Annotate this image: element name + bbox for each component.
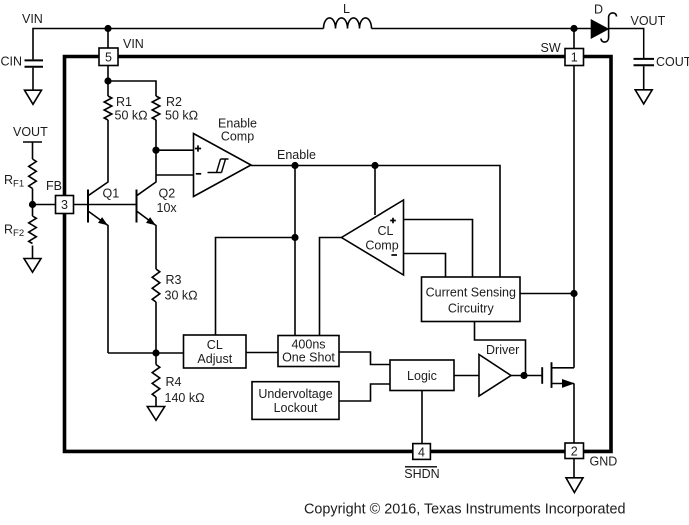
svg-text:Lockout: Lockout [274, 401, 318, 415]
svg-text:GND: GND [590, 455, 618, 469]
wire pin2 to ground [573, 459, 575, 478]
node junction SW sense [570, 290, 577, 297]
svg-text:Enable: Enable [277, 148, 316, 162]
feedback divider: VOUT tee bar [23, 141, 42, 143]
wire R3 to R4 [155, 302, 157, 365]
wire CL Adjust to One Shot [246, 352, 278, 354]
transistor M1 channel bar [551, 362, 553, 388]
IC boundary thick border left side lower, bottom-left corner [65, 214, 413, 452]
wire branch to CL Adjust top [216, 238, 296, 336]
wire Logic to Driver [454, 375, 479, 377]
svg-text:R3: R3 [166, 273, 182, 287]
svg-text:Enable: Enable [218, 117, 257, 131]
svg-text:Q1: Q1 [103, 187, 120, 201]
wire VIN pin stub [107, 29, 109, 48]
IC boundary thick border top-right corner, right side, bottom-right [584, 57, 612, 452]
wire top rail right to VOUT [609, 29, 644, 59]
node junction R3 R4 [152, 349, 159, 356]
IC boundary thick border bottom middle [431, 450, 565, 454]
pin 3 box [56, 196, 74, 214]
transistor M1 source arrow [562, 379, 575, 388]
CL Comp minus sign [391, 254, 397, 256]
wire VIN top rail left [33, 29, 324, 60]
pin 1 box [565, 49, 584, 66]
transistor M1 source wire [552, 383, 575, 385]
transistor Q1 emitter arrow [98, 217, 108, 225]
svg-text:Comp: Comp [365, 239, 398, 253]
svg-text:Copyright © 2016, Texas Instru: Copyright © 2016, Texas Instruments Inco… [304, 502, 626, 518]
wire base rail pin3 to Q2 [74, 204, 137, 206]
buffer Driver triangle [479, 355, 511, 397]
wire top rail middle [372, 28, 592, 30]
transistor Q1 emitter [89, 212, 108, 354]
wire CL Comp minus input [404, 254, 446, 278]
node junction top rail at VIN [104, 25, 111, 32]
wire VOUT tee to RF1 [32, 142, 34, 159]
wire SW vertical upper [573, 66, 575, 368]
transistor Q2 base bar [136, 190, 138, 223]
svg-text:One Shot: One Shot [282, 351, 335, 365]
wire plus input Enable Comp [156, 149, 194, 151]
wire junction to R2 top [108, 81, 156, 96]
block Logic [390, 360, 454, 391]
node junction FB [29, 201, 36, 208]
ground below COUT [635, 90, 652, 104]
svg-text:L: L [343, 2, 350, 16]
svg-text:VIN: VIN [22, 12, 43, 26]
node junction R2 comparator [152, 147, 159, 154]
svg-text:1: 1 [571, 51, 578, 65]
svg-text:R4: R4 [166, 375, 182, 389]
svg-text:SHDN: SHDN [404, 467, 439, 481]
svg-text:CL: CL [207, 338, 223, 352]
wire R4 to ground [155, 397, 157, 407]
wire UVLO to Logic [339, 384, 390, 401]
node junction gate [520, 372, 527, 379]
node junction Enable left [291, 162, 298, 169]
wire Enable net [251, 166, 500, 278]
resistor RF2 [29, 216, 37, 244]
op-amp CL Comp triangle [342, 200, 404, 275]
node junction Enable branch [291, 234, 298, 241]
wire SW node stub [573, 29, 575, 49]
wire R1 to Q1 collector [89, 120, 108, 195]
pin 2 box [565, 443, 584, 459]
resistor R3 [152, 269, 160, 302]
IC boundary thick border top-left corner and left side upper [65, 57, 100, 196]
wire Driver to gate [511, 375, 542, 377]
svg-text:CIN: CIN [1, 55, 23, 69]
wire CL Comp plus input [404, 220, 473, 278]
wire RF1 to FB node [32, 189, 34, 217]
transistor M1 gate bar [541, 367, 543, 384]
svg-text:COUT: COUT [656, 55, 689, 69]
svg-text:10x: 10x [157, 201, 178, 215]
svg-text:Circuitry: Circuitry [448, 302, 495, 316]
svg-text:VOUT: VOUT [13, 125, 48, 139]
svg-text:4: 4 [418, 446, 425, 460]
ground below pin2 [566, 478, 583, 493]
resistor R2 [152, 96, 160, 120]
transistor Q2 emitter [137, 212, 156, 270]
transistor M1 drain wire [552, 367, 575, 369]
wire emitter rail to CL Adjust [108, 352, 184, 354]
svg-text:CL: CL [378, 224, 394, 238]
svg-text:400ns: 400ns [291, 338, 325, 352]
node junction Enable right [371, 162, 378, 169]
svg-text:SW: SW [541, 41, 561, 55]
svg-text:Undervoltage: Undervoltage [258, 387, 332, 401]
resistor RF1 [29, 159, 37, 188]
capacitor COUT [634, 58, 655, 60]
block 400ns One Shot [278, 336, 339, 367]
wire One Shot to Logic [339, 352, 390, 365]
capacitor CIN [25, 59, 44, 61]
svg-text:30 kΩ: 30 kΩ [165, 289, 198, 303]
block CL Adjust [184, 335, 247, 368]
wire R2 to Q2 collector [137, 120, 156, 195]
pin 4 box [413, 444, 431, 460]
svg-text:VOUT: VOUT [631, 14, 666, 28]
wire FB node to pin3 [33, 204, 56, 206]
ground below R4 [147, 407, 164, 421]
svg-text:Comp: Comp [221, 130, 254, 144]
node junction top rail at SW [570, 25, 577, 32]
svg-text:VIN: VIN [123, 37, 144, 51]
SHDN overline [405, 466, 437, 468]
pin 5 box [99, 48, 118, 66]
wire Enable branch to CL Comp top [374, 166, 376, 216]
svg-text:Current Sensing: Current Sensing [426, 286, 516, 300]
wire SW vertical lower to pin2 [573, 384, 575, 444]
wire RF2 to ground [32, 246, 34, 259]
svg-text:5: 5 [105, 51, 112, 65]
inductor L [324, 18, 372, 29]
transistor Q1 base bar [87, 190, 89, 223]
svg-text:FB: FB [46, 179, 62, 193]
wire pin5 to R1 R2 junction [107, 66, 109, 97]
svg-text:Logic: Logic [407, 369, 437, 383]
wire Current Sensing to gate node [475, 322, 526, 376]
svg-text:Q2: Q2 [159, 187, 176, 201]
resistor R1 [104, 96, 112, 120]
Enable Comp hysteresis symbol [208, 159, 229, 173]
svg-text:R2: R2 [166, 95, 182, 109]
svg-text:140 kΩ: 140 kΩ [165, 391, 205, 405]
CL Comp plus sign [390, 218, 396, 224]
wire minus input Enable Comp [156, 174, 194, 176]
Enable Comp plus sign [195, 145, 201, 151]
block Undervoltage Lockout [252, 382, 339, 420]
node junction below pin5 [104, 77, 111, 84]
wire Logic to pin4 [421, 391, 423, 444]
svg-text:3: 3 [61, 198, 68, 212]
wire COUT to ground [643, 66, 645, 90]
diode D [592, 20, 608, 37]
block Current Sensing Circuitry [422, 277, 521, 322]
Enable Comp minus sign [196, 173, 201, 175]
diode D schottky cathode [601, 13, 617, 42]
svg-text:50 kΩ: 50 kΩ [115, 109, 148, 123]
transistor Q2 emitter arrow [146, 217, 156, 225]
op-amp Enable Comp triangle [194, 134, 252, 197]
svg-text:D: D [594, 3, 603, 17]
svg-text:2: 2 [571, 445, 578, 459]
wire CIN to ground [32, 68, 34, 91]
wire Current Sensing to SW line [520, 293, 574, 295]
svg-text:Driver: Driver [486, 343, 519, 357]
wire CL Comp output to One Shot [320, 238, 342, 336]
ground below RF2 [24, 259, 41, 273]
svg-text:Adjust: Adjust [197, 352, 232, 366]
IC boundary thick border top middle [118, 55, 565, 59]
resistor R4 [152, 365, 160, 397]
wire Enable branch down left [294, 166, 296, 336]
svg-text:50 kΩ: 50 kΩ [165, 109, 198, 123]
ground below CIN [25, 90, 42, 104]
svg-text:R1: R1 [116, 95, 132, 109]
